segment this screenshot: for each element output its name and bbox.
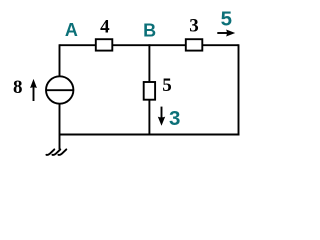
wire: node B vertical to R3: [148, 44, 150, 82]
svg-text:4: 4: [100, 16, 110, 37]
wire: left vertical below current source: [59, 104, 61, 149]
current source I1 (circle with horizontal bar): [46, 76, 73, 103]
wire: R3 bottom to bottom wire: [148, 100, 150, 135]
wire: bottom horizontal: [60, 134, 240, 136]
arrow down (branch current 3): [158, 107, 165, 126]
resistor R1 value 4 (between A and B): [96, 39, 113, 50]
resistor R2 value 3 (between B and right corner): [186, 39, 203, 50]
arrow up (source current direction): [30, 79, 37, 101]
svg-text:5: 5: [162, 75, 172, 96]
arrow right (branch current 5): [217, 30, 235, 37]
svg-text:5: 5: [221, 8, 232, 31]
wire: top right segment to corner: [203, 44, 239, 46]
svg-text:3: 3: [189, 16, 199, 37]
svg-text:A: A: [65, 20, 78, 40]
wire: top middle segment R1 to node B: [113, 44, 186, 46]
wire: left vertical above current source: [59, 44, 61, 76]
ground: [46, 149, 66, 155]
svg-text:3: 3: [169, 107, 180, 130]
wire: right vertical: [238, 44, 240, 135]
resistor R3 value 5 (vertical, below B): [144, 82, 155, 100]
svg-text:8: 8: [13, 77, 23, 98]
wire: top-left horizontal A segment: [60, 44, 96, 46]
svg-text:B: B: [143, 20, 156, 40]
